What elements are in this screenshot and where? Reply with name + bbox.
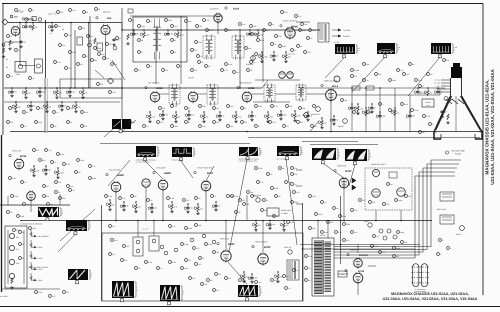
svg-text:MIX OSC: MIX OSC	[103, 11, 111, 14]
svg-text:680: 680	[94, 59, 97, 62]
flyback transformer	[312, 238, 334, 296]
waveform leader W4	[286, 159, 297, 245]
vertical wire x240	[239, 30, 241, 88]
svg-text:2.2M: 2.2M	[12, 177, 16, 180]
svg-text:21ATP4: 21ATP4	[455, 153, 462, 156]
tuner callout circles top	[25, 18, 28, 21]
svg-text:10: 10	[174, 51, 176, 54]
wire rail jog x122	[121, 23, 123, 31]
vertical wire x45 tuner	[45, 20, 47, 78]
svg-text:470: 470	[138, 69, 141, 72]
IF transformer T6	[264, 85, 275, 101]
sound discriminator T3	[232, 36, 244, 58]
waveform photo WE zigzag	[38, 207, 59, 217]
tube V9 6BY7 small	[334, 76, 340, 82]
svg-text:.001: .001	[296, 191, 299, 194]
svg-text:.047: .047	[52, 295, 55, 298]
svg-text:.001: .001	[230, 105, 233, 108]
svg-text:+135V: +135V	[38, 279, 44, 282]
svg-text:20: 20	[22, 257, 24, 260]
AGC wire verticals	[115, 192, 117, 221]
svg-text:VERT OUTPUT: VERT OUTPUT	[255, 241, 269, 244]
svg-text:.01: .01	[254, 115, 256, 118]
svg-text:.01: .01	[222, 115, 224, 118]
svg-text:470: 470	[160, 121, 163, 124]
svg-text:.01: .01	[336, 119, 338, 122]
svg-text:46,25: 46,25	[288, 52, 295, 56]
svg-text:120: 120	[106, 57, 109, 60]
wire rail y249	[302, 248, 415, 250]
vertical wire x331	[330, 88, 332, 132]
vertical wire x75	[74, 30, 76, 88]
svg-text:1B3GT: 1B3GT	[320, 234, 325, 237]
svg-text:.047: .047	[206, 19, 209, 22]
svg-text:MAGNAVOX CHASSIS U21-01AA, U21: MAGNAVOX CHASSIS U21-01AA, U21-02AA,	[485, 80, 490, 175]
osc coil tall box	[35, 59, 43, 73]
svg-text:1500: 1500	[72, 51, 76, 54]
svg-text:2.2M: 2.2M	[172, 261, 176, 264]
svg-text:6AW8: 6AW8	[117, 174, 124, 177]
svg-text:.001: .001	[312, 29, 315, 32]
svg-text:AGC KEYING: AGC KEYING	[109, 169, 121, 172]
svg-text:.047: .047	[165, 114, 168, 117]
sync components cluster	[33, 149, 36, 152]
svg-text:.005: .005	[289, 105, 292, 108]
svg-text:.001: .001	[23, 40, 26, 43]
svg-text:.01: .01	[146, 125, 148, 128]
svg-text:AUDIO OUTPUT: AUDIO OUTPUT	[283, 20, 297, 23]
svg-text:.1: .1	[382, 103, 383, 106]
waveform photo W9	[431, 43, 451, 54]
waveform leader W6	[349, 165, 355, 187]
svg-text:.047: .047	[48, 149, 51, 152]
audio output transformer	[318, 23, 329, 42]
tuner shaft dashed link	[44, 78, 46, 133]
svg-text:.047: .047	[242, 199, 245, 202]
waveform photo WH	[112, 281, 134, 298]
T1 internal specks	[138, 25, 141, 28]
svg-text:.01: .01	[58, 191, 60, 194]
yoke connector box 2	[440, 215, 454, 224]
horiz ret box	[338, 271, 347, 277]
svg-text:.02: .02	[24, 125, 26, 128]
svg-text:.001: .001	[386, 203, 389, 206]
svg-text:47: 47	[86, 55, 88, 58]
svg-text:680: 680	[300, 121, 303, 124]
svg-text:680: 680	[440, 91, 443, 94]
svg-text:1500: 1500	[174, 125, 178, 128]
waveform leader W1	[145, 161, 163, 179]
IF transformer T4	[169, 85, 180, 104]
svg-text:1500: 1500	[346, 223, 350, 226]
svg-text:20: 20	[272, 23, 274, 26]
waveform photo W5	[312, 148, 336, 160]
svg-text:U21-03AA, U21-04AA, V21-02AA,: U21-03AA, U21-04AA, V21-02AA, V21-03AA, …	[490, 68, 495, 184]
svg-text:HORIZ OSC CONT: HORIZ OSC CONT	[371, 163, 386, 166]
svg-text:470: 470	[298, 15, 301, 18]
svg-text:.02: .02	[310, 37, 312, 40]
horiz section verticals	[343, 178, 345, 221]
svg-text:.05: .05	[26, 111, 28, 114]
mixer grid components	[94, 38, 96, 44]
svg-text:4.5MC: 4.5MC	[354, 69, 360, 72]
contrast control	[316, 107, 321, 112]
mid specks row y225	[29, 227, 32, 230]
svg-text:.05: .05	[54, 125, 56, 128]
vert integrator box1	[133, 237, 143, 256]
waveform leader W9	[408, 57, 440, 96]
svg-text:.005: .005	[253, 25, 256, 28]
quadrant4 left drops	[255, 221, 257, 223]
wire section divider y137	[248, 137, 480, 139]
tuner cluster 2 extra	[94, 47, 97, 50]
wire rail y88 right	[300, 87, 445, 89]
audio specks	[257, 39, 260, 42]
waveform leader W8	[352, 57, 385, 92]
video area hanging components	[351, 104, 353, 106]
svg-text:TO SPKR: TO SPKR	[343, 29, 351, 32]
svg-text:.047: .047	[122, 197, 125, 200]
svg-text:82: 82	[188, 121, 190, 124]
CRT area specks	[423, 115, 426, 118]
svg-text:HORIZ HOLD: HORIZ HOLD	[281, 209, 292, 212]
waveform photo W2 sync	[172, 147, 192, 157]
box upper right of tuner	[60, 79, 122, 98]
row y102 drops	[15, 102, 17, 104]
vert hold control	[256, 198, 260, 202]
svg-text:4 1/v: 4 1/v	[142, 227, 149, 231]
horiz out tube label	[345, 269, 347, 271]
waveform leader WG diagonal	[60, 209, 95, 241]
sound section extra	[195, 41, 198, 44]
svg-text:+135V: +135V	[38, 257, 44, 260]
waveform photo W1 composite video	[136, 146, 156, 157]
wire AGC rail y88	[4, 87, 262, 89]
waveform photo WJ twin	[238, 285, 258, 297]
svg-text:.05: .05	[24, 181, 26, 184]
bottom left wire y289	[2, 288, 61, 290]
svg-text:6AW8: 6AW8	[164, 172, 171, 175]
svg-text:47: 47	[119, 37, 121, 40]
svg-text:68: 68	[86, 11, 88, 14]
svg-text:6CM7: 6CM7	[228, 243, 235, 246]
svg-text:.047: .047	[92, 165, 95, 168]
waveform photo W8	[377, 43, 395, 54]
svg-text:.01: .01	[32, 77, 34, 80]
svg-text:.001: .001	[354, 231, 357, 234]
svg-text:.047: .047	[444, 110, 447, 113]
bottom border line	[0, 306, 500, 308]
audio cluster extra	[275, 35, 278, 38]
tube V6 2nd video IF 6CB6	[188, 92, 198, 102]
svg-text:.02: .02	[18, 49, 20, 52]
vertical wire x156	[155, 30, 157, 84]
svg-text:.02: .02	[276, 55, 278, 58]
svg-text:100: 100	[199, 25, 202, 28]
waveform photo WI	[160, 285, 180, 301]
tuner diagonal leads	[112, 60, 125, 80]
junction dots	[121, 29, 123, 31]
svg-text:560: 560	[274, 279, 277, 282]
noise gate specks	[9, 177, 12, 180]
svg-text:6CM7: 6CM7	[264, 246, 271, 249]
vert box circles	[190, 238, 194, 242]
svg-text:.001: .001	[242, 23, 245, 26]
width coil	[460, 226, 465, 231]
waveform leader WJ	[228, 262, 247, 284]
svg-text:6CB6: 6CB6	[156, 87, 163, 90]
tube V20 horiz control	[372, 189, 381, 198]
svg-text:.01: .01	[72, 189, 74, 192]
svg-text:SYNC AMP: SYNC AMP	[156, 167, 166, 170]
svg-text:1500: 1500	[101, 53, 105, 56]
tube V7 3rd video IF 6CB6	[242, 92, 252, 102]
svg-text:.05: .05	[10, 211, 12, 214]
IF transformer T5	[207, 85, 218, 104]
more junction dots	[351, 87, 353, 89]
top border line	[2, 3, 483, 5]
svg-text:.01: .01	[366, 79, 368, 82]
svg-text:560: 560	[258, 224, 261, 227]
tuner extra drops	[25, 23, 27, 25]
svg-text:2.2M: 2.2M	[108, 195, 112, 198]
right extra specks	[371, 245, 374, 248]
audio extra	[299, 29, 302, 32]
svg-text:+410V BOOST: +410V BOOST	[38, 235, 49, 238]
waveform photo W4	[277, 146, 299, 156]
svg-text:150: 150	[216, 107, 219, 110]
tube socket oval 2	[421, 264, 427, 287]
svg-text:.01: .01	[270, 173, 272, 176]
inner box wiring	[60, 87, 122, 89]
vertical wire x340 lower	[340, 196, 342, 264]
svg-text:SOCKET: SOCKET	[343, 35, 350, 38]
vertical wire x90	[89, 16, 91, 88]
svg-text:120: 120	[420, 91, 423, 94]
tube socket oval 1	[413, 264, 419, 287]
horiz section extra specks	[305, 255, 308, 258]
svg-text:.01: .01	[294, 183, 296, 186]
svg-text:MAGNAVOX CHASSIS U21-01AA, U21: MAGNAVOX CHASSIS U21-01AA, U21-02AA,	[391, 292, 469, 296]
svg-text:HORIZ AFC: HORIZ AFC	[337, 165, 347, 168]
svg-text:5-25: 5-25	[209, 29, 212, 32]
tube V19 horiz osc	[372, 169, 379, 176]
svg-text:.001: .001	[170, 33, 173, 36]
svg-text:6CB6: 6CB6	[248, 87, 255, 90]
svg-text:.02: .02	[200, 55, 202, 58]
tube V11 phase splitter	[27, 192, 36, 201]
video out drops	[321, 118, 323, 120]
svg-text:560: 560	[78, 106, 81, 109]
svg-text:100: 100	[236, 71, 239, 74]
vert specks	[239, 279, 242, 282]
svg-text:.02: .02	[18, 9, 20, 12]
svg-text:.047: .047	[382, 251, 385, 254]
IF extra bottom specks	[129, 121, 132, 124]
svg-text:3RD VIDEO IF: 3RD VIDEO IF	[240, 82, 253, 85]
tube V14 sync phase inv 6CU7	[201, 181, 211, 191]
vertical wire x71	[70, 23, 72, 89]
svg-text:100: 100	[58, 25, 61, 28]
waveform photo W10 twin squares	[112, 119, 131, 129]
svg-text:.001: .001	[174, 25, 177, 28]
flyback top wires	[317, 221, 319, 239]
tube V4 audio output 6BM8	[285, 28, 295, 38]
svg-text:6CM7: 6CM7	[345, 170, 352, 173]
svg-text:120: 120	[194, 49, 197, 52]
mid zone vertical	[246, 195, 248, 221]
svg-text:220: 220	[82, 27, 85, 30]
brightness control	[343, 119, 348, 124]
sync lower extra	[43, 195, 46, 198]
phase splitter cluster	[11, 195, 14, 198]
volume control	[251, 56, 256, 61]
left wire y42	[4, 41, 20, 43]
svg-text:1.5M: 1.5M	[290, 221, 294, 224]
bottom mid extra	[189, 277, 192, 280]
waveform leader W10	[104, 129, 113, 137]
vert osc specks	[174, 248, 178, 252]
power supply box internals	[19, 231, 22, 234]
svg-text:.25: .25	[218, 205, 220, 208]
svg-text:DAMPER: DAMPER	[350, 249, 358, 252]
damper wires	[357, 245, 359, 254]
svg-text:330: 330	[244, 121, 247, 124]
svg-text:.01: .01	[266, 199, 268, 202]
stabilizer coil	[389, 172, 397, 178]
CRT internal line	[455, 96, 457, 131]
wire rail y143	[100, 143, 250, 145]
svg-text:.047: .047	[190, 207, 193, 210]
svg-text:680: 680	[412, 115, 415, 118]
svg-text:.005: .005	[254, 277, 257, 280]
svg-text:.02: .02	[276, 215, 278, 218]
AFC diode pair	[352, 178, 356, 183]
AGC row drops	[11, 88, 13, 90]
tube V21 horiz disc	[397, 188, 406, 197]
loudspeaker arrows	[332, 29, 340, 31]
tube V22 damper 6AX4GT	[354, 259, 363, 268]
waveform photo WF	[66, 220, 87, 231]
svg-text:.02: .02	[286, 125, 288, 128]
svg-text:.047: .047	[198, 263, 201, 266]
left column extra specks	[7, 121, 10, 124]
drive control	[368, 223, 372, 227]
waveform photo W7	[335, 44, 355, 54]
svg-text:VERT OSC: VERT OSC	[220, 238, 230, 241]
svg-text:2.2M: 2.2M	[208, 243, 212, 246]
svg-text:.03: .03	[308, 267, 310, 270]
svg-text:5-25: 5-25	[42, 91, 45, 94]
vert output transformer	[287, 260, 299, 280]
svg-text:220: 220	[84, 125, 87, 128]
audio bias components	[261, 52, 263, 54]
left edge component column	[2, 44, 5, 47]
svg-text:SYNC PHASE INV: SYNC PHASE INV	[197, 167, 213, 170]
svg-text:45,0: 45,0	[205, 54, 211, 58]
svg-text:1500: 1500	[258, 105, 262, 108]
vert linearity control	[288, 250, 292, 254]
power supply bottom filter	[11, 278, 13, 284]
svg-text:.005: .005	[307, 51, 310, 54]
sound section specks	[196, 25, 199, 28]
video right drops	[417, 88, 419, 90]
yoke area specks	[439, 239, 442, 242]
svg-text:.01: .01	[296, 269, 298, 272]
svg-text:470: 470	[10, 75, 13, 78]
svg-text:.001: .001	[230, 125, 233, 128]
tube V3 sound IF 6AU6	[214, 14, 222, 22]
wire above horiz waveforms	[310, 144, 378, 146]
CRT bias components	[441, 110, 443, 111]
sync drops	[33, 166, 35, 168]
tuner lower specks	[54, 61, 57, 64]
svg-text:.047: .047	[172, 225, 175, 228]
svg-text:680: 680	[126, 205, 129, 208]
svg-text:47: 47	[422, 85, 424, 88]
svg-text:.05: .05	[68, 67, 70, 70]
mixer plate vertical	[105, 36, 107, 60]
svg-text:680: 680	[136, 33, 139, 36]
vertical wire x218 sound	[217, 22, 219, 34]
svg-text:6AU6: 6AU6	[233, 8, 240, 11]
tuner trap square	[32, 17, 36, 21]
svg-text:.047: .047	[186, 199, 189, 202]
horiz mid specks	[309, 195, 312, 198]
svg-text:.25: .25	[354, 107, 356, 110]
svg-text:470: 470	[64, 105, 67, 108]
wire section divider y131	[10, 131, 483, 133]
svg-text:47: 47	[258, 125, 260, 128]
svg-text:.25: .25	[210, 279, 212, 282]
svg-text:5-25: 5-25	[191, 114, 194, 117]
yoke connector box 1	[440, 192, 454, 201]
svg-text:.01: .01	[150, 20, 152, 23]
svg-text:.5: .5	[432, 123, 433, 126]
svg-text:680: 680	[48, 169, 51, 172]
audio takeoff wire	[296, 21, 310, 23]
svg-text:.047: .047	[356, 111, 359, 114]
svg-text:.01: .01	[56, 111, 58, 114]
svg-text:.001: .001	[354, 209, 357, 212]
svg-text:6BM8: 6BM8	[291, 25, 298, 28]
tube V18 horiz AFC 6CM7	[339, 178, 349, 188]
CRT deflection yoke marks	[446, 99, 452, 104]
sync mid extra	[77, 159, 80, 162]
svg-text:2ND IF: 2ND IF	[188, 77, 195, 80]
svg-text:.01: .01	[202, 257, 204, 260]
svg-text:.001: .001	[68, 34, 71, 37]
tuner components below V1	[9, 40, 11, 46]
video to CRT wire	[336, 94, 440, 96]
vert components	[243, 272, 245, 274]
video detector coil	[296, 85, 306, 100]
svg-text:1B3: 1B3	[396, 255, 399, 258]
svg-text:.02: .02	[138, 267, 140, 270]
twin audio takeoff tubes	[279, 72, 286, 79]
svg-text:.047: .047	[260, 181, 263, 184]
svg-text:5-25: 5-25	[283, 114, 286, 117]
tube V16 vert osc 6CM7	[221, 251, 231, 261]
video right area specks	[351, 75, 354, 78]
vertical wire x88	[88, 23, 90, 89]
extra diagonal leaders	[122, 120, 136, 132]
svg-text:.047: .047	[196, 247, 199, 250]
svg-text:.001: .001	[174, 105, 177, 108]
svg-text:330: 330	[228, 277, 231, 280]
video area vertical drops	[351, 88, 353, 132]
tube V5 1st video IF 6CB6	[150, 92, 160, 102]
